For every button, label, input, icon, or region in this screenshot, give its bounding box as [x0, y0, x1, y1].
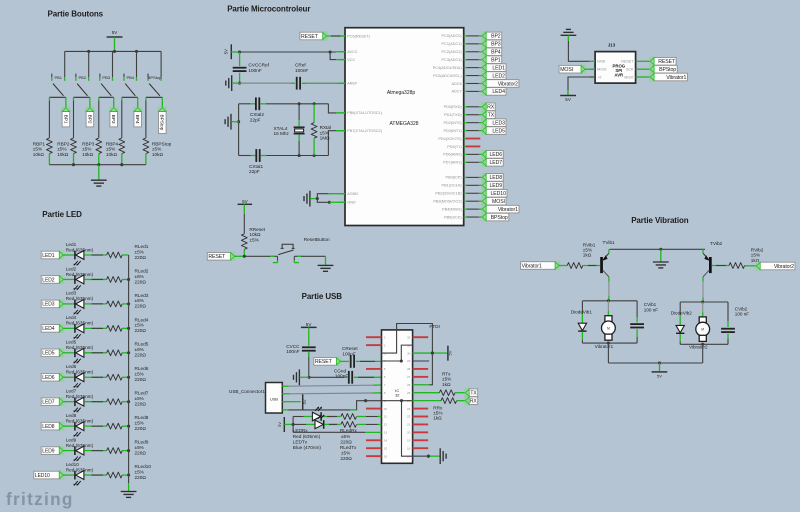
- node pin9 junction: [400, 399, 403, 402]
- node usb gnd wire junction: [364, 399, 367, 402]
- svg-text:Partie Microcontroleur: Partie Microcontroleur: [227, 4, 310, 13]
- svg-text:Red (635nm): Red (635nm): [66, 321, 94, 326]
- svg-text:RLed3: RLed3: [135, 293, 149, 298]
- svg-text:BPStop: BPStop: [491, 215, 508, 221]
- wire PD7(AIN1) to net label LED7: [467, 161, 479, 163]
- svg-text:220Ω: 220Ω: [135, 255, 147, 260]
- wire resistor RLed6 to bus: [122, 376, 128, 378]
- svg-text:100 nF: 100 nF: [735, 312, 749, 317]
- svg-text:Led10: Led10: [66, 462, 79, 467]
- pin J13 left: [589, 76, 595, 78]
- LED Led1 Red (635nm): [74, 251, 76, 260]
- svg-text:±5%: ±5%: [135, 249, 144, 254]
- power +5V (J13): [560, 95, 576, 97]
- svg-text:RESET: RESET: [315, 359, 333, 365]
- pin J13 right: [636, 76, 642, 78]
- node LED bus junction 6: [127, 376, 130, 379]
- node 5V junction: [238, 50, 241, 53]
- svg-text:Led4: Led4: [66, 315, 77, 320]
- wire unrouted IC pin10: [366, 408, 382, 410]
- wire PC0(ADC0) to net label BP2: [467, 35, 479, 37]
- push button PB1: [51, 74, 53, 78]
- wire LED9 to resistor RLed9: [84, 450, 106, 452]
- capacitor CGnd 100nF: [348, 371, 350, 384]
- resistor RLed6 220: [107, 374, 123, 380]
- resistor RTx 1k: [439, 390, 455, 396]
- svg-text:10: 10: [384, 407, 388, 411]
- node reset tie junction: [400, 359, 403, 362]
- wire LED3 to resistor RLed3: [84, 303, 106, 305]
- wire vibration 5V rail: [608, 362, 702, 364]
- wire LED8 to resistor RLed8: [84, 425, 106, 427]
- svg-text:J13: J13: [608, 43, 616, 48]
- svg-text:Led3: Led3: [66, 291, 77, 296]
- wire IC pin25 to RTx: [413, 392, 440, 394]
- wire IC pin17 to ground: [413, 455, 429, 457]
- svg-text:BPStop: BPStop: [159, 115, 165, 131]
- power +5V (USB VBUS): [302, 394, 304, 409]
- net label LED2: [59, 275, 65, 284]
- net label Vibrator1 (J13): [649, 72, 655, 81]
- wire unrouted IC pin19: [413, 439, 429, 441]
- svg-text:BP4: BP4: [491, 50, 501, 56]
- svg-text:100nF: 100nF: [295, 68, 308, 73]
- motor Vibrator1: [607, 301, 609, 311]
- wire unrouted (red) at PD4(XCK/T0): [464, 138, 466, 140]
- ground (crystal): [230, 114, 232, 130]
- svg-text:PD5(T1): PD5(T1): [447, 145, 462, 149]
- wire 5V to IC pin13: [293, 431, 365, 433]
- resistor RXtal 1M: [313, 104, 315, 123]
- svg-text:LED3: LED3: [42, 302, 54, 308]
- net label Vibrator2 (input): [755, 261, 761, 270]
- svg-text:PB7(XTAL2/TOSC2): PB7(XTAL2/TOSC2): [347, 129, 382, 133]
- svg-text:20: 20: [407, 431, 411, 435]
- svg-text:VCC: VCC: [347, 58, 355, 62]
- node bottom rail junction 2: [97, 163, 100, 166]
- ground (J13): [561, 34, 577, 36]
- node LED bus junction 8: [127, 425, 130, 428]
- wire internal to ground pin17: [402, 401, 413, 457]
- power +5V (LEDs USB): [283, 417, 285, 432]
- svg-text:5: 5: [384, 367, 386, 371]
- svg-text:220Ω: 220Ω: [340, 456, 352, 461]
- wire PB4 to resistor RBP4: [121, 101, 123, 138]
- svg-text:PC1(ADC1): PC1(ADC1): [442, 42, 463, 46]
- svg-text:ResetButton: ResetButton: [304, 237, 330, 242]
- svg-text:220Ω: 220Ω: [340, 439, 352, 444]
- svg-text:LED5: LED5: [42, 351, 54, 357]
- net label LED10: [481, 189, 487, 198]
- svg-text:220Ω: 220Ω: [135, 426, 147, 431]
- svg-text:Partie Vibration: Partie Vibration: [631, 216, 689, 225]
- svg-text:100nF: 100nF: [342, 351, 355, 356]
- svg-text:LED4: LED4: [42, 326, 54, 332]
- svg-text:220Ω: 220Ω: [135, 377, 147, 382]
- svg-text:BP1: BP1: [491, 57, 501, 63]
- svg-text:Red (635nm): Red (635nm): [66, 443, 94, 448]
- wire CRef to AREF: [302, 82, 345, 84]
- svg-text:11: 11: [384, 415, 387, 419]
- node usb gnd junction: [307, 376, 310, 379]
- ground (vibration): [653, 261, 669, 263]
- svg-text:AGND: AGND: [347, 192, 358, 196]
- wire reset node to button: [244, 255, 277, 257]
- wire unrouted IC pin32: [413, 336, 429, 338]
- svg-text:Led8: Led8: [66, 413, 77, 418]
- wire rail drop to PB1: [64, 51, 66, 73]
- wire MOSI label to J13: [585, 68, 595, 70]
- wire IC pin24 to RRx: [413, 400, 442, 402]
- wire resistor RLed7 to bus: [122, 401, 128, 403]
- wire LED feed vertical: [292, 417, 294, 433]
- wire TVib2 base to RVib2: [712, 265, 729, 267]
- net label LED8: [59, 422, 65, 431]
- capacitor CVib1 100nF: [636, 301, 638, 317]
- svg-text:ADC7: ADC7: [451, 90, 461, 94]
- wire CVCC to gnd node: [308, 352, 310, 377]
- svg-text:Red (635nm): Red (635nm): [66, 418, 94, 423]
- svg-text:DiodeVib2: DiodeVib2: [671, 311, 693, 316]
- svg-text:BP3: BP3: [110, 115, 116, 124]
- wire PB2 to resistor RBP2: [73, 101, 75, 138]
- wire rail drop to PB4: [136, 51, 138, 73]
- svg-text:22pF: 22pF: [250, 117, 261, 122]
- svg-text:7: 7: [384, 383, 386, 387]
- svg-text:LED2: LED2: [492, 73, 505, 79]
- wire LED2 to resistor RLed2: [84, 278, 106, 280]
- svg-text:29: 29: [407, 359, 411, 363]
- svg-text:Atmega328p: Atmega328p: [387, 90, 416, 96]
- svg-text:USB_Connector1: USB_Connector1: [229, 389, 265, 394]
- wire USB D+ to IC pin 8: [290, 392, 372, 395]
- svg-text:AVCC: AVCC: [347, 50, 358, 54]
- svg-text:LED7: LED7: [490, 160, 503, 166]
- wire gnd node to CRef: [240, 82, 291, 84]
- svg-text:PB4: PB4: [126, 75, 134, 80]
- wire 5V to CVCC: [308, 327, 310, 345]
- net label BP2: [85, 107, 94, 113]
- net label LED7: [481, 158, 487, 167]
- node vib2 top junction: [701, 300, 704, 303]
- wire RESET label to node: [235, 255, 245, 257]
- node LED 5V junction: [292, 423, 295, 426]
- resistor RReset 10k: [241, 234, 247, 250]
- svg-text:TVib1: TVib1: [603, 240, 616, 245]
- svg-text:PC3(ADC3): PC3(ADC3): [442, 58, 463, 62]
- wire to PB7: [328, 131, 339, 156]
- pin AVCC: [339, 51, 345, 53]
- svg-text:±5%: ±5%: [341, 434, 350, 439]
- svg-text:10kΩ: 10kΩ: [33, 152, 45, 157]
- net label BP4: [133, 107, 142, 113]
- svg-text:RLed1: RLed1: [135, 244, 149, 249]
- svg-text:TVib2: TVib2: [710, 241, 723, 246]
- wire PD3(INT1) to net label LED5: [467, 130, 479, 132]
- svg-text:±5%: ±5%: [135, 420, 144, 425]
- resistor RLedTx 220: [341, 422, 357, 428]
- svg-text:±5%: ±5%: [135, 274, 144, 279]
- svg-text:Led6: Led6: [66, 364, 77, 369]
- wire PC4(ADC4/SDA) to net label LED1: [467, 67, 479, 69]
- node LED bus junction 7: [127, 400, 130, 403]
- LED Led8 Red (635nm): [74, 422, 76, 431]
- svg-text:15: 15: [384, 446, 388, 450]
- svg-text:18: 18: [407, 446, 411, 450]
- wire label to LED8: [63, 425, 74, 427]
- wire LED7 to resistor RLed7: [84, 401, 106, 403]
- wire crystal top branch: [239, 103, 251, 105]
- pin USB D+: [282, 401, 288, 403]
- resistor RBP2 10k: [71, 138, 77, 154]
- svg-text:Red (635nm): Red (635nm): [66, 272, 94, 277]
- pin J13 left: [589, 60, 595, 62]
- LED LEDRx Red (635nm): [312, 412, 320, 421]
- net label BPStop: [158, 107, 167, 113]
- wire PD0(RXD) to net label RX: [467, 106, 479, 108]
- wire unrouted (red) at PD5(T1): [464, 145, 466, 147]
- svg-text:±5%: ±5%: [341, 451, 350, 456]
- svg-text:1kΩ: 1kΩ: [583, 253, 592, 258]
- wire rail drop to BPStop: [160, 51, 162, 73]
- svg-text:RLed5: RLed5: [135, 342, 149, 347]
- net label LED5: [59, 348, 65, 357]
- svg-text:Led5: Led5: [66, 340, 77, 345]
- wire J13 MISO to label: [641, 76, 650, 78]
- wire resistor RLed9 to bus: [122, 450, 128, 452]
- svg-text:RLed10: RLed10: [135, 464, 152, 469]
- svg-text:10kΩ: 10kΩ: [82, 152, 94, 157]
- wire RLedRx to IC pin11: [357, 416, 366, 418]
- svg-text:Vibrator1: Vibrator1: [522, 263, 542, 269]
- svg-text:PB2: PB2: [79, 75, 87, 80]
- LED Led7 Red (635nm): [74, 397, 76, 406]
- svg-text:14: 14: [384, 438, 388, 442]
- svg-text:5V: 5V: [242, 199, 249, 204]
- wire 5V to RReset: [243, 204, 245, 214]
- svg-text:100nF: 100nF: [286, 349, 299, 354]
- svg-text:Vibrator2: Vibrator2: [498, 81, 518, 87]
- svg-text:LED7: LED7: [42, 400, 54, 406]
- net label LED2: [481, 71, 487, 80]
- svg-text:BP4: BP4: [134, 115, 140, 124]
- wire PC2(ADC2) to net label BP4: [467, 51, 479, 53]
- LED Led9 Red (635nm): [74, 446, 76, 455]
- net label BP3: [481, 39, 487, 48]
- svg-text:5V: 5V: [224, 49, 229, 54]
- svg-text:LED8: LED8: [490, 175, 503, 181]
- push button BPStop: [147, 74, 149, 78]
- resistor RRx 1k: [441, 398, 457, 404]
- svg-text:Vibrator2: Vibrator2: [774, 264, 794, 270]
- svg-text:32: 32: [395, 393, 400, 398]
- wire unrouted IC pin2: [366, 344, 382, 346]
- svg-text:220Ω: 220Ω: [135, 402, 147, 407]
- node LED bus junction 5: [127, 351, 130, 354]
- node pin17 gnd junction: [427, 455, 430, 458]
- wire TVib2 collector to motor group: [702, 277, 704, 282]
- wire resistor RLed5 to bus: [122, 352, 128, 354]
- wire to DiodeVib2: [679, 302, 681, 315]
- net label RX: [464, 396, 470, 405]
- LED Led2 Red (635nm): [74, 275, 76, 284]
- svg-text:LED10: LED10: [35, 473, 50, 479]
- wire LED6 to resistor RLed6: [84, 376, 106, 378]
- wire PB0(ICP) to net label LED8: [467, 176, 479, 178]
- pin PB7(XTAL2/TOSC2): [339, 130, 345, 132]
- svg-text:LEDTx: LEDTx: [293, 439, 308, 444]
- wire RESET label to CReset: [340, 360, 349, 362]
- svg-text:25: 25: [407, 391, 411, 395]
- svg-text:LED4: LED4: [492, 89, 505, 95]
- node LED bus junction 9: [127, 449, 130, 452]
- svg-text:PC4(ADC4/SDA): PC4(ADC4/SDA): [433, 66, 463, 70]
- wire 5V to button rail: [114, 37, 116, 51]
- wire unrouted IC pin18: [413, 447, 429, 449]
- wire label to LED4: [63, 327, 74, 329]
- node top rail gnd junction: [659, 248, 662, 251]
- resistor RBP1 10k: [47, 138, 53, 154]
- svg-text:220Ω: 220Ω: [135, 328, 147, 333]
- wire RVib2 to label: [745, 265, 757, 267]
- wire label to LED6: [63, 376, 74, 378]
- wire resistor RBP2 to bottom rail: [73, 154, 75, 165]
- wire unrouted IC pin16: [366, 455, 382, 457]
- svg-text:PB4(MISO): PB4(MISO): [442, 207, 462, 211]
- resistor RVib2 1k: [729, 263, 745, 269]
- net label RESET (J13): [649, 57, 655, 66]
- svg-text:19: 19: [407, 438, 411, 442]
- pin J13 right: [636, 60, 642, 62]
- svg-text:10kΩ: 10kΩ: [152, 152, 164, 157]
- motor Vibrator2: [702, 302, 704, 312]
- wire LED4 to resistor RLed4: [84, 327, 106, 329]
- net label LED9: [59, 446, 65, 455]
- svg-text:8: 8: [384, 391, 386, 395]
- LED Led3 Red (635nm): [74, 300, 76, 309]
- wire label to LED10: [63, 474, 74, 476]
- svg-text:LED6: LED6: [42, 375, 54, 381]
- wire PC3(ADC3) to net label BP1: [467, 59, 479, 61]
- wire to LEDTx: [293, 423, 306, 425]
- svg-text:RX: RX: [470, 398, 478, 404]
- wire rail to ground: [660, 249, 662, 261]
- wire USB GND to IC pin 9: [289, 401, 382, 410]
- node 5V tie junction dot: [431, 352, 434, 355]
- svg-text:Red (635nm): Red (635nm): [66, 345, 94, 350]
- wire LEDRx to RLedRx: [322, 416, 341, 418]
- svg-text:5V: 5V: [277, 422, 282, 427]
- LED Led10 Red (635nm): [74, 471, 76, 480]
- wire unrouted IC pin15: [366, 447, 382, 449]
- svg-text:1: 1: [384, 335, 386, 339]
- svg-text:RLed4: RLed4: [135, 317, 149, 322]
- wire unrouted IC pin22: [413, 416, 429, 418]
- wire to AGND: [317, 194, 330, 199]
- wire PB4 to net label: [137, 101, 139, 108]
- svg-text:RLedRx: RLedRx: [340, 428, 358, 433]
- wire CVCCRef to gnd node: [239, 73, 241, 84]
- push button ResetButton: [277, 256, 279, 260]
- wire 5V to AVCC rail: [231, 51, 239, 53]
- node LED bus junction 3: [127, 302, 130, 305]
- svg-text:PD1(TXD): PD1(TXD): [444, 113, 462, 117]
- net label LED1: [481, 63, 487, 72]
- net label LED7: [59, 397, 65, 406]
- svg-text:5V: 5V: [302, 399, 307, 404]
- wire IC pin4 to pin31 tie: [382, 345, 413, 361]
- wire PB3(MOSI/OC2) to net label MOSI: [467, 200, 479, 202]
- svg-text:Blue (470nm): Blue (470nm): [293, 445, 322, 450]
- wire IC pin3 over-top route: [382, 324, 433, 354]
- wire to VCC: [330, 52, 336, 60]
- node LED bus junction 10: [127, 474, 130, 477]
- wire USB VBUS to 5V: [289, 401, 301, 403]
- svg-text:10kΩ: 10kΩ: [57, 152, 69, 157]
- svg-text:PB6(XTAL1/TOSC1): PB6(XTAL1/TOSC1): [347, 111, 382, 115]
- net label LED4: [481, 87, 487, 96]
- net label LED5: [481, 126, 487, 135]
- wire PB5(SCK) to net label BPStop: [467, 216, 479, 218]
- wire RLedTx to IC pin12: [357, 423, 366, 425]
- svg-text:100 nF: 100 nF: [644, 307, 658, 312]
- resistor RBPStop 10k: [143, 138, 149, 154]
- node rxtal top junction: [313, 102, 316, 105]
- ground (CVCCRef): [231, 75, 233, 91]
- wire PD1(TXD) to net label TX: [467, 114, 479, 116]
- svg-text:Red (635nm): Red (635nm): [293, 434, 321, 439]
- wire vib1 group bottom rail: [582, 342, 637, 344]
- svg-text:BP3: BP3: [491, 42, 501, 48]
- pin PB6(XTAL1/TOSC1): [339, 112, 345, 114]
- node AREF gnd junction: [238, 82, 241, 85]
- wire label to LED1: [63, 254, 74, 256]
- net label LED1: [59, 250, 65, 259]
- svg-text:1kΩ: 1kΩ: [433, 416, 442, 421]
- svg-text:RESET: RESET: [621, 60, 634, 64]
- wire RReset to reset node: [243, 250, 245, 257]
- svg-text:USB: USB: [270, 397, 278, 401]
- wire gnd node to CGnd: [309, 376, 344, 378]
- resistor RLed8 220: [107, 423, 123, 429]
- svg-text:M: M: [701, 328, 704, 332]
- wire to DiodeVib1: [581, 301, 583, 314]
- wire unrouted IC pin28: [413, 368, 429, 370]
- svg-text:Led9: Led9: [66, 437, 77, 442]
- svg-text:ATMEGA328: ATMEGA328: [389, 121, 418, 127]
- net label LED10: [59, 470, 65, 479]
- wire RVib1 to TVib1 base: [583, 265, 600, 267]
- wire PD2(INT0) to net label LED3: [467, 122, 479, 124]
- wire unrouted IC pin20: [413, 431, 429, 433]
- power +5V (FTDI): [447, 346, 449, 361]
- svg-text:PC5(ADC5/SCL): PC5(ADC5/SCL): [433, 74, 462, 78]
- capacitor CVCC 100nF: [302, 346, 316, 348]
- wire vib1 group top rail: [582, 300, 637, 302]
- node xtal bottom junction: [298, 154, 301, 157]
- resistor RLed10 220: [107, 472, 123, 478]
- node reset junction: [243, 255, 246, 258]
- svg-text:GND: GND: [597, 60, 605, 64]
- svg-text:LED1: LED1: [42, 253, 54, 259]
- net label LED6: [59, 373, 65, 382]
- wire unrouted IC pin21: [413, 423, 429, 425]
- svg-text:1MΩ: 1MΩ: [320, 136, 331, 141]
- wire unrouted IC pin1: [366, 336, 382, 338]
- svg-text:GND: GND: [347, 201, 356, 205]
- net label LED4: [59, 324, 65, 333]
- node LED bus junction 4: [127, 327, 130, 330]
